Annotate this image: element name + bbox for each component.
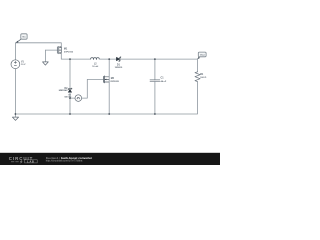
wire inductor to D1 bbox=[99, 58, 116, 60]
R1 label bbox=[200, 73, 206, 79]
svg-text:44 uF: 44 uF bbox=[161, 80, 167, 83]
svg-text:1N5819: 1N5819 bbox=[115, 67, 123, 69]
wire R1 to ground rail bbox=[15, 82, 197, 114]
wire M1 source to mid rail bbox=[61, 53, 90, 59]
ground at bottom left bbox=[12, 114, 18, 120]
wire top rail V1 to M1 drain bbox=[15, 43, 61, 60]
transistor M2 bbox=[103, 76, 109, 83]
V1 label bbox=[21, 62, 26, 66]
node flag Vout bbox=[198, 52, 207, 59]
footer bar bbox=[0, 153, 220, 165]
V2 label bbox=[64, 94, 72, 98]
footer logo LAB row bbox=[11, 160, 37, 164]
inductor L2 bbox=[91, 58, 100, 60]
capacitor C1 bbox=[150, 59, 160, 114]
svg-text:http://circuitlab.com/c/7e77db: http://circuitlab.com/c/7e77dbba bbox=[46, 159, 83, 163]
svg-text:MBR340: MBR340 bbox=[59, 89, 68, 92]
wire branch diode D2 chain bbox=[69, 59, 71, 89]
L2 label bbox=[92, 64, 98, 68]
svg-text:ZVP2106: ZVP2106 bbox=[64, 51, 74, 53]
wire V2 to M2 gate bbox=[82, 79, 104, 98]
wire M2 drain up and source down bbox=[108, 59, 110, 114]
transistor M1 bbox=[45, 46, 61, 54]
svg-text:100 Ω: 100 Ω bbox=[200, 77, 206, 79]
voltage source V1 bbox=[11, 60, 20, 69]
svg-text:10 V: 10 V bbox=[21, 64, 26, 66]
svg-text:84 kHz: 84 kHz bbox=[64, 96, 72, 99]
svg-text:10 uH: 10 uH bbox=[92, 66, 98, 68]
junction dots bbox=[15, 58, 156, 115]
D1 label bbox=[115, 65, 123, 70]
voltage source V2 bbox=[70, 95, 82, 102]
M1 label bbox=[64, 48, 74, 54]
wire D1 to output corner bbox=[120, 59, 198, 72]
D2 label bbox=[59, 88, 68, 92]
diode D2 bbox=[68, 88, 72, 92]
C1 label bbox=[161, 77, 167, 84]
wire D2 to ground rail bbox=[69, 92, 71, 114]
svg-text:Vout: Vout bbox=[200, 54, 205, 57]
wire V1 bottom to ground rail bbox=[14, 69, 16, 114]
resistor R1 bbox=[195, 72, 200, 82]
svg-text:IRF3205: IRF3205 bbox=[111, 81, 120, 83]
ground at M1 gate bbox=[43, 50, 49, 65]
diode D1 bbox=[116, 57, 120, 62]
svg-text:LAB: LAB bbox=[27, 160, 35, 163]
node flag Vin bbox=[16, 34, 27, 43]
M2 label bbox=[111, 77, 120, 83]
